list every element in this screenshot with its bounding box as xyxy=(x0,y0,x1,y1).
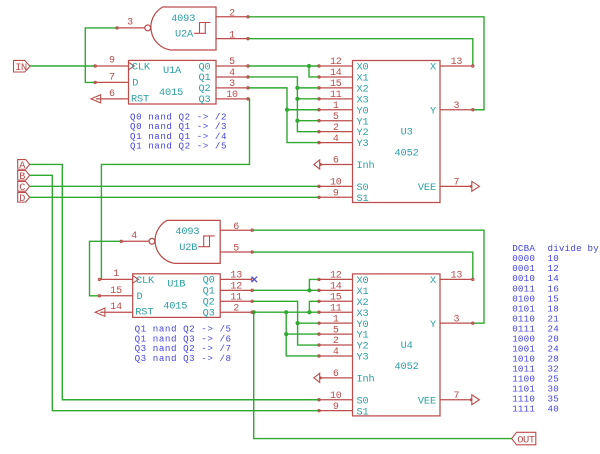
U1A pin Q3 (10) xyxy=(216,90,249,101)
svg-text:14: 14 xyxy=(110,302,122,313)
svg-text:RST: RST xyxy=(131,93,149,105)
wire net Q0A: U1A Q0 pin5 to U3 X0/X1 xyxy=(248,65,319,67)
svg-text:3: 3 xyxy=(453,314,459,325)
svg-text:4: 4 xyxy=(131,231,137,242)
U2A input pin 1 xyxy=(216,30,249,41)
svg-text:5: 5 xyxy=(333,112,339,123)
U3 pin Y2 (2) xyxy=(318,123,353,134)
svg-text:Inh: Inh xyxy=(357,373,375,385)
wire net Q1B: U1B Q1 pin12 to U4 X0/X1 xyxy=(252,289,319,291)
U3 pin Y3 (4) xyxy=(318,134,353,145)
U3 pin S0 (10) xyxy=(318,178,353,189)
U1A pin Q2 (3) xyxy=(216,79,249,90)
U4 pin Y3 (4) xyxy=(318,347,353,358)
svg-text:14: 14 xyxy=(330,68,342,79)
svg-text:11: 11 xyxy=(330,303,342,314)
svg-text:Y: Y xyxy=(430,319,436,331)
U2A output bubble xyxy=(145,25,151,31)
svg-text:Q3: Q3 xyxy=(203,308,215,320)
no-connect marker on U1B Q0 pin 13 xyxy=(252,277,258,283)
input flag IN xyxy=(14,60,31,74)
U1A pin Q0 (5) xyxy=(216,57,249,68)
U2A input pin 2 xyxy=(216,9,249,20)
svg-text:40: 40 xyxy=(548,404,559,415)
svg-text:1: 1 xyxy=(333,101,339,112)
input flag A xyxy=(18,160,30,172)
U4 pin S1 (9) xyxy=(318,402,353,413)
wire net B: flag B to U4 S1 xyxy=(30,175,319,410)
U3 pin Y0 (1) xyxy=(318,101,353,112)
svg-text:10: 10 xyxy=(226,90,238,101)
svg-text:VEE: VEE xyxy=(418,395,436,407)
svg-text:2: 2 xyxy=(333,336,339,347)
svg-text:Inh: Inh xyxy=(357,160,375,172)
junction Q2A at Y0 xyxy=(285,108,289,112)
U4 pin X2 (15) xyxy=(318,292,353,303)
note block: bottom divider ratios xyxy=(135,324,232,364)
U2A output pin 3 xyxy=(116,18,145,29)
wire net U2B in pin6 to U4 Y out pin3 xyxy=(252,230,484,323)
U3 pin S1 (9) xyxy=(318,188,353,199)
svg-text:U2B: U2B xyxy=(179,242,197,254)
junction Q3B at Y1 xyxy=(284,332,288,336)
input flag D xyxy=(18,192,30,204)
svg-text:RST: RST xyxy=(135,307,153,319)
U4 pin X0 (12) xyxy=(318,271,353,282)
svg-text:U1B: U1B xyxy=(167,278,185,290)
svg-text:5: 5 xyxy=(333,325,339,336)
svg-text:5: 5 xyxy=(229,57,235,68)
U3 pin X1 (14) xyxy=(318,68,353,79)
U4 pin Y1 (5) xyxy=(318,325,353,336)
svg-text:2: 2 xyxy=(333,123,339,134)
U1B pin Q1 (12) xyxy=(220,282,253,293)
svg-text:Y3: Y3 xyxy=(357,352,369,364)
svg-text:13: 13 xyxy=(451,57,463,68)
svg-text:4: 4 xyxy=(333,347,339,358)
wire net C: flag C to U3 S0 xyxy=(30,185,319,187)
U1B pin Q3 (2) xyxy=(220,303,253,314)
svg-text:7: 7 xyxy=(109,72,115,83)
svg-text:6: 6 xyxy=(333,156,339,167)
U1B pin D (15) xyxy=(98,286,132,297)
wire net A: flag A to U4 S0 xyxy=(30,164,319,399)
svg-text:4: 4 xyxy=(229,68,235,79)
U2B output bubble xyxy=(149,238,155,244)
U1A clock wedge xyxy=(129,62,135,70)
svg-text:CLK: CLK xyxy=(132,62,151,74)
svg-text:IN: IN xyxy=(15,62,27,74)
svg-text:1: 1 xyxy=(333,314,339,325)
svg-text:4015: 4015 xyxy=(163,300,187,312)
svg-text:4: 4 xyxy=(333,134,339,145)
svg-text:11: 11 xyxy=(230,292,242,303)
output flag OUT xyxy=(512,432,536,446)
svg-text:6: 6 xyxy=(333,369,339,380)
svg-text:9: 9 xyxy=(333,188,339,199)
svg-text:12: 12 xyxy=(330,57,342,68)
svg-text:15: 15 xyxy=(110,286,122,297)
U4 pin Y2 (2) xyxy=(318,336,353,347)
U3 pin Inh (6) with arrow xyxy=(314,156,353,169)
svg-text:7: 7 xyxy=(453,178,459,189)
junction Q1A at X2 xyxy=(295,86,299,90)
wire net U2A in pin2 to U3 Y out pin3 xyxy=(248,17,484,110)
analog mux U4 (4052) body xyxy=(353,274,441,416)
U1A pin RST (6) with arrow xyxy=(91,89,129,103)
svg-text:13: 13 xyxy=(230,271,242,282)
svg-text:12: 12 xyxy=(330,271,342,282)
input flag C xyxy=(18,181,30,193)
svg-text:14: 14 xyxy=(330,282,342,293)
U1B clock wedge xyxy=(133,276,139,284)
svg-text:D: D xyxy=(132,77,138,89)
U3 pin X2 (15) xyxy=(318,79,353,90)
junction Q3B at X3 left xyxy=(284,310,288,314)
svg-text:1: 1 xyxy=(229,30,235,41)
svg-text:U4: U4 xyxy=(401,340,413,352)
svg-text:OUT: OUT xyxy=(517,434,534,446)
U4 pin X1 (14) xyxy=(318,282,353,293)
svg-text:CLK: CLK xyxy=(136,275,155,287)
U1B pin Q2 (11) xyxy=(220,292,253,303)
wire net U2B in pin5 to U4 X out pin13 xyxy=(252,252,473,279)
svg-text:Q1 nand Q2 -> /5: Q1 nand Q2 -> /5 xyxy=(130,141,227,152)
junction Q3B at X3 right xyxy=(307,310,311,314)
U4 pin Inh (6) with arrow xyxy=(314,369,353,382)
svg-text:4093: 4093 xyxy=(171,13,195,25)
U3 pin X (13) xyxy=(440,57,474,68)
svg-text:12: 12 xyxy=(230,282,242,293)
svg-text:Y: Y xyxy=(430,105,436,117)
wire net U2B out pin4 to U1B D pin15 xyxy=(90,241,122,295)
svg-text:U1A: U1A xyxy=(163,65,182,77)
U2B input pin 5 xyxy=(220,244,253,255)
U4 pin Y (3) xyxy=(440,314,474,325)
U2B input pin 6 xyxy=(220,222,253,233)
wire net IN: IN flag to U1A CLK pin 9 xyxy=(30,65,95,67)
U1B pin Q0 (13) xyxy=(220,271,253,282)
svg-text:1111: 1111 xyxy=(512,404,535,415)
svg-text:3: 3 xyxy=(127,18,133,29)
U3 pin X0 (12) xyxy=(318,57,353,68)
note block: divide-by table xyxy=(512,243,599,415)
U4 pin Y0 (1) xyxy=(318,314,353,325)
svg-text:Q3 nand Q3 -> /8: Q3 nand Q3 -> /8 xyxy=(135,353,232,364)
svg-text:6: 6 xyxy=(233,222,239,233)
svg-text:D: D xyxy=(137,291,143,303)
svg-text:9: 9 xyxy=(109,55,115,66)
wire net Q1A: U1A Q1 pin4 to U3 X2,X3,Y1,Y2 xyxy=(248,77,319,132)
svg-text:4093: 4093 xyxy=(175,226,199,238)
svg-text:13: 13 xyxy=(451,271,463,282)
wire net Q3B: U1B Q3 pin2 to U4 X2,X3,Y1,Y3 and OUT xyxy=(252,311,319,313)
svg-text:X: X xyxy=(430,62,436,74)
svg-text:4052: 4052 xyxy=(395,361,419,373)
nand gate U2B (4093) body xyxy=(155,220,220,263)
svg-text:Y3: Y3 xyxy=(357,138,369,150)
wire net D: flag D to U3 S1 xyxy=(30,196,319,198)
junction Q0A at X0 xyxy=(307,64,311,68)
svg-text:3: 3 xyxy=(229,79,235,90)
svg-text:1: 1 xyxy=(113,269,119,280)
wire net U1A Q3 pin10 to U1B CLK pin1 xyxy=(99,99,249,280)
analog mux U3 (4052) body xyxy=(353,61,441,203)
U3 pin X3 (11) xyxy=(318,90,353,101)
svg-text:U2A: U2A xyxy=(175,28,194,40)
svg-text:S1: S1 xyxy=(357,406,369,418)
junction Q1B at X1 xyxy=(307,288,311,292)
svg-text:10: 10 xyxy=(330,391,342,402)
U2B output pin 4 xyxy=(120,231,149,243)
wire net U2A out pin3 to U1A D pin7 xyxy=(85,28,117,83)
wire net Q2B: U1B Q2 pin11 to U4 Y0,Y2 xyxy=(252,301,319,345)
junction Q1A at Y1 xyxy=(295,119,299,123)
svg-text:4015: 4015 xyxy=(159,87,183,99)
U1A pin D (7) xyxy=(94,72,129,83)
svg-text:7: 7 xyxy=(453,391,459,402)
junction Q2B at Y0 xyxy=(296,321,300,325)
svg-text:15: 15 xyxy=(330,79,342,90)
svg-text:X: X xyxy=(430,275,436,287)
junction Q1A at X3 xyxy=(295,97,299,101)
input flag B xyxy=(18,170,30,182)
svg-text:4052: 4052 xyxy=(395,148,419,160)
svg-text:D: D xyxy=(19,194,25,205)
U4 pin VEE (7) with arrow xyxy=(440,391,479,405)
svg-text:11: 11 xyxy=(330,90,342,101)
shift register U1A (4015) body xyxy=(129,60,217,104)
svg-text:3: 3 xyxy=(453,101,459,112)
svg-text:S1: S1 xyxy=(357,193,369,205)
U3 pin VEE (7) with arrow xyxy=(440,178,479,192)
svg-text:2: 2 xyxy=(229,9,235,20)
U4 pin X3 (11) xyxy=(318,303,353,314)
svg-text:9: 9 xyxy=(333,402,339,413)
U4 pin X (13) xyxy=(440,271,474,282)
U3 pin Y1 (5) xyxy=(318,112,353,123)
U1A pin CLK (9) xyxy=(94,55,129,67)
junction Q3B at pin2 xyxy=(252,310,256,314)
wire net Q2A: U1A Q2 pin3 to U3 Y0,Y3 xyxy=(248,88,319,143)
note block: top divider ratios xyxy=(130,111,227,151)
svg-text:10: 10 xyxy=(330,178,342,189)
U1B pin CLK (1) xyxy=(98,269,132,281)
U1A pin Q1 (4) xyxy=(216,68,249,79)
U3 pin Y (3) xyxy=(440,101,474,112)
svg-text:Q3: Q3 xyxy=(198,94,210,106)
svg-text:2: 2 xyxy=(233,303,239,314)
nand gate U2A (4093) body xyxy=(151,7,216,50)
svg-text:U3: U3 xyxy=(401,127,413,139)
U4 pin S0 (10) xyxy=(318,391,353,402)
svg-text:5: 5 xyxy=(233,244,239,255)
shift register U1B (4015) body xyxy=(133,274,221,318)
U1B pin RST (14) with arrow xyxy=(95,302,133,316)
svg-text:15: 15 xyxy=(330,292,342,303)
svg-text:6: 6 xyxy=(109,89,115,100)
svg-text:VEE: VEE xyxy=(418,182,436,194)
wire net U2A in pin1 to U3 X out pin13 xyxy=(248,39,473,66)
